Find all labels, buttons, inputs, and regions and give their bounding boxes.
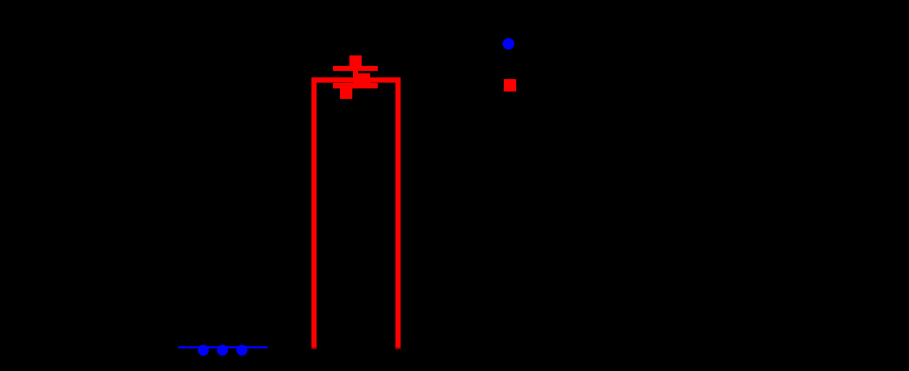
data point group1 circle 1	[198, 345, 209, 356]
error bar group2 bottom cap	[333, 83, 378, 88]
data point group2 square B	[358, 73, 370, 85]
bar group2 right edge dim tail at axis	[395, 347, 400, 349]
bar group2 left edge dim tail at axis	[311, 347, 316, 349]
data point group1 circle 2	[217, 345, 228, 356]
data point group1 circle 3	[237, 345, 248, 356]
data point group2 square A	[349, 55, 361, 67]
legend marker group1 (blue circle)	[503, 38, 515, 50]
bar group2 (red, open outline)	[314, 80, 398, 348]
bar group1 (blue, zero height)	[178, 346, 268, 348]
legend marker group2 (red square)	[504, 79, 516, 91]
error bar group2 vertical line	[353, 61, 358, 88]
error bar group2 top cap	[333, 66, 378, 71]
data point group2 square C	[340, 87, 352, 99]
